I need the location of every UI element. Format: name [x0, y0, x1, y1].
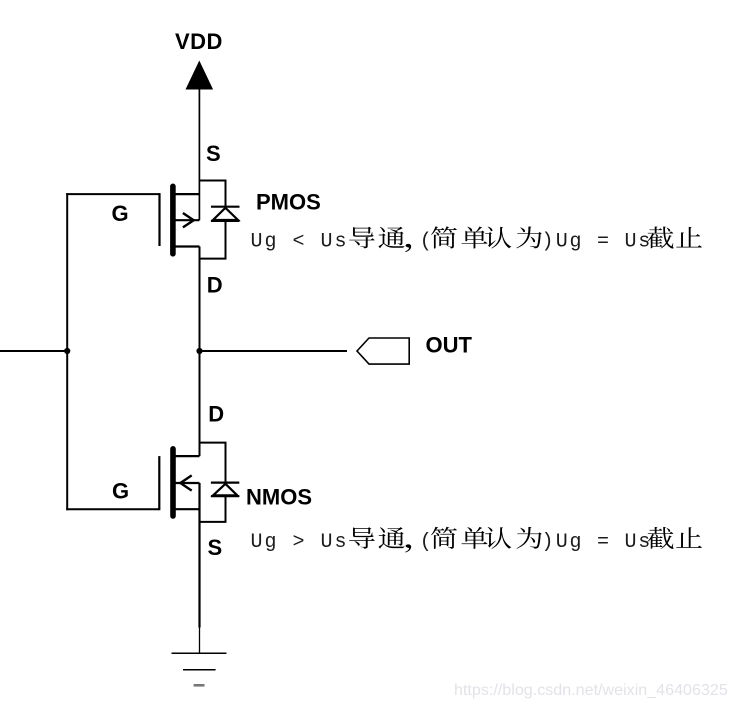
diode D1 PMOS body diode anode bar: [211, 220, 240, 222]
svg-text:OUT: OUT: [426, 332, 473, 357]
ground bar 1: [172, 652, 227, 654]
annotation 1 CJK char 认: [485, 227, 511, 249]
svg-text:Ug = Us: Ug = Us: [556, 231, 652, 254]
wire output node to OUT pin: [200, 350, 348, 352]
wire net VDD vertical: [198, 89, 200, 220]
transistor Q1 PMOS gate wire: [66, 193, 159, 195]
svg-text:D: D: [208, 402, 224, 427]
annotation 1 comma: [405, 244, 411, 252]
wire NMOS body diode branch bottom: [200, 496, 226, 522]
annotation 2 CJK char 认: [485, 527, 511, 549]
svg-text:PMOS: PMOS: [256, 190, 321, 215]
svg-text:NMOS: NMOS: [246, 485, 312, 510]
annotation 2 CJK char 止: [676, 527, 702, 548]
wire output net rail: [199, 247, 201, 457]
annotation 1 CJK char 单: [461, 226, 487, 248]
transistor Q2 NMOS channel bar: [170, 449, 176, 516]
svg-text:G: G: [112, 479, 129, 504]
annotation 2 CJK char 截: [647, 527, 673, 549]
transistor Q1 PMOS bulk line: [174, 219, 199, 221]
diode D1 PMOS body diode cathode bar: [211, 206, 240, 208]
transistor Q2 NMOS gate wire: [66, 508, 159, 510]
transistor Q2 NMOS gate plate: [158, 456, 160, 510]
transistor Q1 PMOS drain line: [174, 245, 200, 247]
annotation 1 CJK char 通: [378, 227, 404, 249]
transistor Q2 NMOS bulk line: [174, 482, 200, 484]
svg-text:): ): [542, 231, 554, 254]
annotation 1 CJK char 简: [431, 226, 457, 248]
diode D2 NMOS body diode anode bar: [211, 495, 239, 497]
wire NMOS source to ground: [198, 483, 200, 628]
transistor Q1 PMOS channel bar: [170, 186, 176, 254]
annotation 2 CJK char 简: [431, 527, 457, 549]
wire input net from left edge: [0, 350, 67, 352]
wire PMOS body diode branch top: [199, 181, 225, 208]
diode D2 NMOS body diode triangle: [213, 484, 237, 496]
annotation 1 CJK char 导: [349, 227, 375, 249]
transistor Q2 NMOS arrow: [180, 475, 191, 490]
annotation 2 CJK char 单: [461, 527, 487, 549]
transistor Q1 PMOS gate plate: [158, 193, 160, 246]
ground lead: [199, 628, 201, 654]
wire gate bus vertical: [66, 193, 68, 510]
wire NMOS body diode branch top: [200, 443, 226, 483]
pin symbol OUT pentagon: [357, 338, 409, 364]
annotation 2 comma: [405, 544, 411, 552]
transistor Q2 NMOS source line: [174, 508, 200, 510]
ground bar 3: [194, 684, 205, 687]
junction input/gate bus: [64, 348, 70, 354]
svg-text:Ug = Us: Ug = Us: [556, 531, 652, 554]
svg-text:VDD: VDD: [175, 29, 223, 54]
annotation 1 CJK char 截: [647, 227, 673, 249]
annotation 2 CJK char 导: [349, 527, 375, 549]
annotation 2 CJK char 通: [378, 527, 404, 549]
diode D2 NMOS body diode cathode bar: [211, 482, 239, 484]
svg-text:https://blog.csdn.net/weixin_4: https://blog.csdn.net/weixin_46406325: [454, 681, 728, 699]
annotation 1 CJK char 止: [676, 227, 702, 248]
svg-text:): ): [542, 531, 554, 554]
svg-text:S: S: [206, 141, 221, 166]
svg-text:S: S: [208, 535, 223, 560]
svg-text:(: (: [420, 531, 432, 554]
svg-text:G: G: [112, 201, 129, 226]
wire PMOS body diode branch bottom: [200, 221, 226, 259]
junction output node: [196, 348, 202, 354]
svg-text:Ug < Us: Ug < Us: [251, 231, 349, 254]
svg-text:Ug > Us: Ug > Us: [251, 531, 349, 554]
transistor Q2 NMOS drain line: [174, 455, 200, 457]
svg-text:(: (: [420, 231, 432, 254]
annotation 2 CJK char 为: [517, 527, 542, 549]
svg-text:D: D: [207, 273, 223, 298]
transistor Q1 PMOS arrow: [183, 213, 194, 227]
ground bar 2: [183, 669, 216, 671]
diode D1 PMOS body diode triangle: [213, 208, 238, 220]
power symbol VDD arrow: [186, 61, 214, 90]
transistor Q1 PMOS source line: [174, 193, 199, 195]
annotation 1 CJK char 为: [517, 227, 542, 249]
